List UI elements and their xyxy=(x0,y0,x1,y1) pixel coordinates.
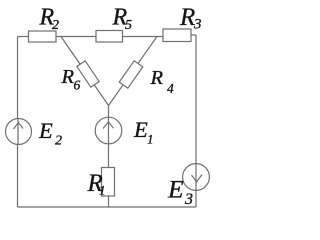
wire right border xyxy=(195,35,197,207)
svg-text:1: 1 xyxy=(99,183,106,198)
resistor R6 xyxy=(77,61,99,87)
label R2 xyxy=(39,5,60,34)
source E2 arrow xyxy=(17,119,19,145)
label E2 xyxy=(38,118,62,149)
svg-text:R: R xyxy=(61,66,75,88)
source E3 arrow xyxy=(195,164,197,191)
svg-text:5: 5 xyxy=(125,18,132,33)
wire top: R2 to R5 xyxy=(56,36,96,38)
svg-text:3: 3 xyxy=(184,191,193,208)
svg-text:2: 2 xyxy=(55,134,62,149)
wire diagonal node B to center (R4 branch) xyxy=(109,37,158,106)
svg-text:6: 6 xyxy=(74,78,81,93)
svg-text:2: 2 xyxy=(52,18,59,33)
resistor R5 xyxy=(96,31,123,43)
wire bottom border xyxy=(18,206,197,208)
resistor R4 xyxy=(119,61,143,88)
wire top: R5 to R3 xyxy=(123,36,164,38)
label R4 xyxy=(150,67,175,96)
label R1 xyxy=(87,170,106,198)
source E3 xyxy=(183,164,210,191)
wire top: R3 to right corner xyxy=(191,34,196,36)
label R6 xyxy=(61,66,81,93)
label R5 xyxy=(112,5,133,34)
svg-text:R: R xyxy=(150,67,164,89)
wire top: left corner to R2 xyxy=(18,36,29,38)
label E1 xyxy=(133,117,154,147)
source E1 xyxy=(95,117,122,144)
wire left border xyxy=(17,37,19,208)
svg-text:1: 1 xyxy=(147,132,154,147)
source E2 xyxy=(6,119,32,145)
resistor R2 xyxy=(29,31,57,42)
label E3 xyxy=(167,175,193,209)
svg-text:E: E xyxy=(133,117,148,142)
wire diagonal node A to center (R6 branch) xyxy=(61,37,109,106)
svg-text:R: R xyxy=(179,4,195,31)
wire center vertical xyxy=(108,106,110,208)
resistor R1 xyxy=(102,168,115,197)
label R3 xyxy=(179,4,202,33)
svg-text:E: E xyxy=(38,118,53,143)
svg-text:4: 4 xyxy=(167,81,174,96)
svg-text:E: E xyxy=(167,175,184,204)
resistor R3 xyxy=(163,29,191,42)
svg-text:3: 3 xyxy=(193,17,202,33)
source E1 arrow xyxy=(108,117,110,144)
